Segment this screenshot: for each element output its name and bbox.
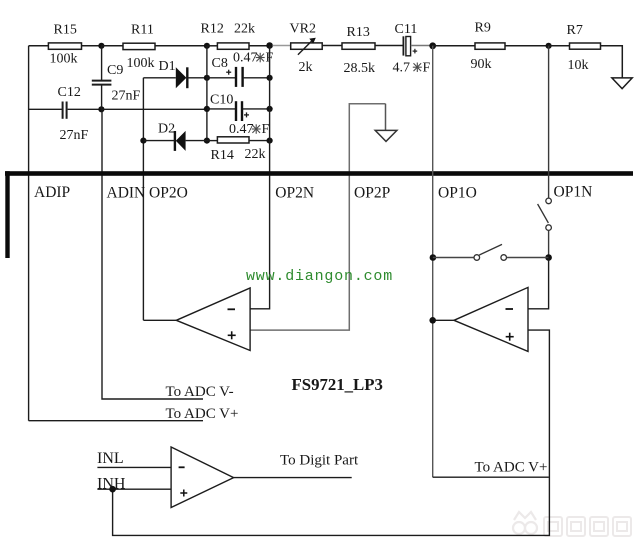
- svg-text:90k: 90k: [471, 57, 492, 72]
- svg-text:R15: R15: [54, 23, 77, 38]
- wire VR2 to R13: [322, 45, 342, 47]
- svg-text:To ADC V+: To ADC V+: [166, 406, 239, 422]
- potentiometer VR2: [290, 22, 323, 76]
- capacitor C11: [395, 22, 418, 56]
- svg-text:F: F: [423, 61, 431, 76]
- wire node B to R12: [207, 45, 218, 47]
- svg-text:INL: INL: [97, 450, 124, 467]
- svg-text:0.47: 0.47: [233, 51, 258, 66]
- svg-text:OP1O: OP1O: [438, 185, 477, 202]
- wire OP1 plus feedback down: [113, 330, 550, 535]
- wire INL lead: [97, 466, 171, 468]
- value label 0.47uF for C8: [233, 51, 274, 66]
- wire C12 line y109: [29, 108, 62, 110]
- svg-text:C10: C10: [210, 93, 233, 108]
- wire ADIP vertical rail: [28, 46, 30, 421]
- wire node F to node G: [101, 108, 206, 110]
- wire switch S1 to node N: [548, 230, 550, 257]
- svg-text:OP2N: OP2N: [275, 185, 314, 202]
- wire OP2 output to OP2O rail: [143, 319, 176, 321]
- wire C10 left lead: [207, 108, 235, 110]
- svg-text:VR2: VR2: [290, 22, 316, 37]
- op-amp U3 comparator: [171, 447, 234, 508]
- wire OP1 output to OP1O rail: [433, 319, 454, 321]
- op-amp U1 (OP1): [454, 287, 528, 351]
- node H junction dot: [204, 75, 210, 81]
- switch S2 (horizontal, open): [474, 244, 507, 260]
- resistor R13: [342, 43, 375, 49]
- node E junction dot: [546, 43, 552, 49]
- svg-text:R7: R7: [567, 23, 583, 38]
- wire R12 to node C: [249, 45, 270, 47]
- node J junction dot: [267, 75, 273, 81]
- svg-text:28.5k: 28.5k: [344, 61, 376, 76]
- resistor R15: [48, 43, 81, 49]
- wire D1 cathode to node H: [187, 77, 207, 79]
- svg-text:27nF: 27nF: [112, 89, 141, 104]
- resistor R14: [217, 137, 249, 143]
- node G junction dot: [204, 106, 210, 112]
- node A junction dot: [98, 43, 104, 49]
- svg-text:www.diangon.com: www.diangon.com: [246, 268, 393, 285]
- wire node E to R7: [549, 45, 570, 47]
- wire D1 anode lead: [143, 77, 175, 79]
- wire node C to VR2 (gray): [273, 45, 291, 47]
- node D junction dot: [429, 42, 436, 49]
- wire C12 to node F: [68, 108, 102, 110]
- svg-text:R12: R12: [201, 22, 224, 37]
- diode D1: [159, 59, 188, 88]
- node N junction dot: [545, 254, 552, 261]
- resistor R7: [570, 43, 601, 49]
- svg-text:To ADC V-: To ADC V-: [166, 384, 234, 400]
- wire node D to R9: [433, 45, 475, 47]
- node M junction dot: [267, 138, 273, 144]
- wire D2 to node I: [186, 140, 207, 142]
- wire To ADC V+ right link: [433, 476, 549, 478]
- wire OP2N vertical: [250, 46, 270, 309]
- svg-text:100k: 100k: [127, 56, 155, 71]
- ground symbol middle: [375, 130, 397, 141]
- svg-text:10k: 10k: [568, 58, 589, 73]
- wire C10 right lead: [243, 108, 270, 110]
- node O junction dot (switch left): [430, 254, 437, 261]
- svg-text:4.7: 4.7: [393, 61, 411, 76]
- node L junction dot (D2 anode): [140, 138, 146, 144]
- value label 0.47uF for C10: [229, 122, 270, 137]
- wire ground stub vertical: [385, 104, 387, 131]
- wire top rail left segment: [29, 45, 49, 47]
- svg-text:2k: 2k: [299, 60, 313, 75]
- wire node A to R11: [101, 45, 123, 47]
- bus bar thick vertical: [5, 171, 9, 258]
- switch S1 (vertical, open): [538, 198, 552, 230]
- svg-text:ADIN: ADIN: [107, 185, 146, 202]
- wire comparator output: [234, 477, 352, 479]
- node P junction dot (OP1 output): [429, 317, 436, 324]
- svg-text:C11: C11: [395, 22, 418, 37]
- capacitor C9: [92, 46, 141, 110]
- resistor R12: [217, 43, 249, 49]
- svg-text:OP1N: OP1N: [554, 184, 593, 201]
- bus bar thick horizontal: [5, 171, 633, 176]
- watermark bottom-right characters: [544, 517, 631, 536]
- wire OP1N vertical top: [548, 46, 550, 198]
- wire C8 left lead: [207, 77, 235, 79]
- svg-text:R13: R13: [347, 25, 370, 40]
- node C junction dot: [266, 42, 273, 49]
- wire To ADC V+ left link: [29, 420, 203, 422]
- watermark bottom-right icon: [513, 512, 537, 534]
- svg-text:100k: 100k: [50, 52, 78, 67]
- ground symbol right: [612, 78, 632, 89]
- svg-text:D1: D1: [159, 59, 176, 74]
- node Q junction dot (INH): [109, 486, 116, 493]
- value label 4.7uF for C11: [393, 61, 431, 76]
- svg-text:C8: C8: [212, 56, 228, 71]
- svg-text:F: F: [262, 122, 270, 137]
- svg-text:To Digit Part: To Digit Part: [280, 453, 359, 469]
- svg-text:To ADC V+: To ADC V+: [475, 460, 548, 476]
- svg-text:OP2P: OP2P: [354, 185, 390, 202]
- svg-text:OP2O: OP2O: [149, 185, 188, 202]
- wire R7 to ground: [601, 46, 623, 78]
- resistor R11: [123, 43, 155, 49]
- node K junction dot: [267, 106, 273, 112]
- svg-text:FS9721_LP3: FS9721_LP3: [292, 375, 383, 394]
- node I junction dot: [204, 138, 210, 144]
- wire D2 lead left: [143, 140, 175, 142]
- resistor R9: [475, 43, 505, 49]
- svg-text:ADIP: ADIP: [34, 184, 70, 201]
- wire C8 right lead: [244, 77, 270, 79]
- wire OP1O vertical: [432, 46, 434, 477]
- wire R9 to node E: [505, 45, 549, 47]
- capacitor C8: [212, 56, 243, 87]
- node B junction dot: [204, 43, 210, 49]
- svg-text:27nF: 27nF: [60, 128, 89, 143]
- svg-text:C12: C12: [58, 85, 81, 100]
- wire switch S2 to node N: [507, 257, 549, 259]
- wire C11 to node D (grayish): [411, 45, 433, 47]
- wire R15 to node A: [82, 45, 102, 47]
- op-amp U2 (OP2): [176, 288, 250, 351]
- svg-text:0.47: 0.47: [229, 122, 254, 137]
- capacitor C12: [58, 85, 89, 143]
- wire OP2O vertical: [142, 78, 144, 320]
- wire node I to R14: [207, 140, 218, 142]
- svg-text:D2: D2: [158, 122, 175, 137]
- svg-text:R9: R9: [475, 21, 491, 36]
- svg-text:R11: R11: [131, 23, 154, 38]
- diode D2: [158, 122, 186, 151]
- vertical bus x207: [206, 46, 208, 141]
- wire node N to OP1 minus input: [528, 258, 549, 309]
- wire ADIN vertical: [102, 109, 203, 399]
- svg-text:22k: 22k: [245, 147, 266, 162]
- wire node O to switch S2: [433, 257, 474, 259]
- wire INH lead: [97, 488, 171, 490]
- wire R11 to node B: [155, 45, 207, 47]
- svg-text:C9: C9: [107, 63, 123, 78]
- wire R14 to node M: [249, 140, 270, 142]
- capacitor C10: [210, 93, 249, 122]
- wire OP2P net with ground stub: [250, 104, 385, 330]
- wire R13 to C11: [375, 45, 403, 47]
- node F junction dot: [98, 106, 104, 112]
- svg-text:R14: R14: [211, 148, 234, 163]
- svg-text:22k: 22k: [234, 22, 255, 37]
